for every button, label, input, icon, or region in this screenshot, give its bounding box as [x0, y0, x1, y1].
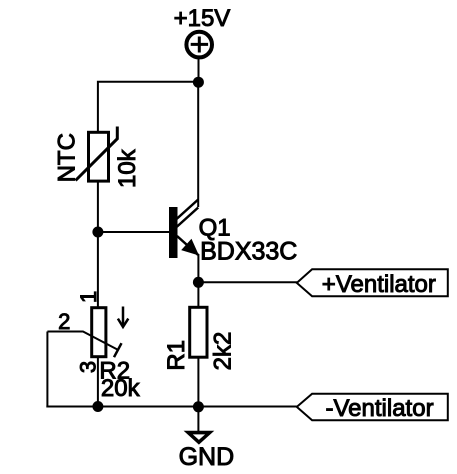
flag -Ventilator [297, 394, 448, 421]
transistor Q1 emitter arrow [183, 241, 197, 254]
wire GND stub [197, 407, 199, 432]
svg-text:1: 1 [76, 291, 101, 303]
svg-text:20k: 20k [101, 375, 141, 402]
trimmer R2 wiper [47, 332, 117, 350]
wire base [98, 231, 169, 233]
transistor Q1 collector double line [176, 200, 198, 220]
node rail GND junction [193, 401, 204, 412]
svg-text:2k2: 2k2 [209, 332, 236, 371]
svg-text:BDX33C: BDX33C [200, 238, 297, 266]
wire emitter down [197, 254, 199, 307]
resistor R1 box [190, 307, 207, 357]
wire R2 bottom to rail [97, 357, 99, 407]
svg-text:10k: 10k [114, 148, 141, 188]
trimmer adjust arrow [122, 307, 125, 327]
thermistor NTC box [89, 132, 109, 181]
wire to +Ventilator [198, 281, 297, 283]
wire pin2 down [46, 332, 48, 408]
trimmer R2 box [92, 308, 106, 357]
node emitter junction [193, 277, 204, 288]
svg-text:-Ventilator: -Ventilator [326, 395, 434, 422]
svg-text:GND: GND [179, 443, 235, 471]
node base junction [92, 227, 103, 238]
wire base node down to R2 [97, 232, 99, 307]
ground symbol [184, 431, 215, 445]
wire bottom rail [46, 406, 297, 408]
flag +Ventilator [297, 269, 448, 296]
node rail R2 junction [92, 401, 103, 412]
svg-text:NTC: NTC [53, 133, 80, 182]
thermistor NTC diagonal [76, 127, 118, 181]
node top junction [193, 77, 204, 88]
svg-text:3: 3 [76, 361, 101, 373]
wire top horizontal [98, 82, 199, 131]
transistor Q1 emitter line [177, 236, 198, 255]
transistor Q1 base bar [169, 207, 178, 258]
svg-text:2: 2 [58, 309, 70, 334]
wire R1 bottom to rail [197, 357, 199, 407]
power +15V circle [186, 32, 212, 58]
svg-text:+15V: +15V [174, 5, 231, 32]
wire NTC bottom to base node [97, 182, 99, 232]
svg-text:R1: R1 [163, 340, 190, 371]
wire from +15V circle to top junction [198, 57, 200, 82]
svg-text:+Ventilator: +Ventilator [322, 271, 436, 298]
wire collector up [197, 82, 199, 207]
trimmer R2 wiper T-bar [114, 343, 122, 357]
